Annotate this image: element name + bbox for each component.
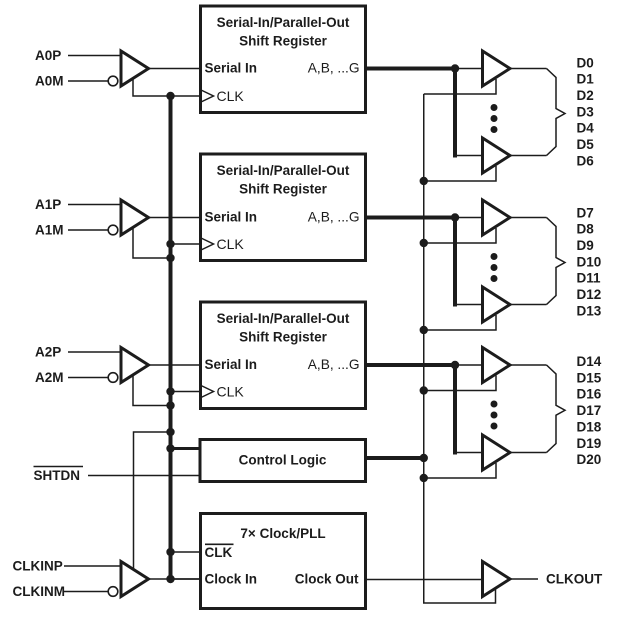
svg-text:A,B, ...G: A,B, ...G — [308, 357, 360, 372]
svg-text:D17: D17 — [577, 403, 602, 418]
svg-text:D15: D15 — [577, 370, 602, 385]
svg-text:7× Clock/PLL: 7× Clock/PLL — [240, 526, 325, 541]
svg-text:D8: D8 — [577, 222, 595, 237]
svg-text:A2P: A2P — [35, 345, 61, 360]
svg-text:D5: D5 — [577, 137, 595, 152]
svg-text:D14: D14 — [577, 354, 602, 369]
svg-text:D7: D7 — [577, 205, 594, 220]
svg-text:Serial-In/Parallel-Out: Serial-In/Parallel-Out — [217, 311, 350, 326]
svg-text:D16: D16 — [577, 387, 602, 402]
svg-text:A2M: A2M — [35, 370, 64, 385]
svg-text:CLK: CLK — [217, 88, 245, 104]
svg-text:D0: D0 — [577, 55, 594, 70]
svg-text:D20: D20 — [577, 452, 602, 467]
svg-text:A1M: A1M — [35, 223, 64, 238]
svg-text:Serial-In/Parallel-Out: Serial-In/Parallel-Out — [217, 163, 350, 178]
svg-text:CLKINP: CLKINP — [13, 559, 63, 574]
svg-text:A0P: A0P — [35, 48, 61, 63]
svg-text:Control Logic: Control Logic — [239, 453, 327, 468]
svg-text:Serial-In/Parallel-Out: Serial-In/Parallel-Out — [217, 15, 350, 30]
svg-text:Serial In: Serial In — [205, 357, 258, 372]
svg-text:A,B, ...G: A,B, ...G — [308, 61, 360, 76]
svg-text:D11: D11 — [577, 271, 602, 286]
svg-text:D9: D9 — [577, 238, 594, 253]
svg-text:Shift Register: Shift Register — [239, 34, 328, 49]
svg-text:D1: D1 — [577, 72, 595, 87]
svg-text:D10: D10 — [577, 254, 602, 269]
svg-text:Shift Register: Shift Register — [239, 182, 328, 197]
svg-text:Clock In: Clock In — [205, 572, 258, 587]
svg-text:A,B, ...G: A,B, ...G — [308, 210, 360, 225]
svg-text:D12: D12 — [577, 287, 602, 302]
svg-text:D13: D13 — [577, 303, 602, 318]
svg-text:D3: D3 — [577, 104, 595, 119]
svg-text:CLK: CLK — [217, 236, 245, 252]
svg-text:CLK: CLK — [217, 384, 245, 400]
svg-text:CLKINM: CLKINM — [13, 584, 66, 599]
svg-text:D2: D2 — [577, 88, 594, 103]
svg-text:Serial In: Serial In — [205, 210, 258, 225]
svg-text:A1P: A1P — [35, 197, 61, 212]
svg-text:Serial In: Serial In — [205, 61, 258, 76]
svg-text:CLK: CLK — [205, 545, 233, 560]
svg-text:CLKOUT: CLKOUT — [546, 572, 603, 587]
svg-text:Clock Out: Clock Out — [295, 572, 359, 587]
svg-text:Shift Register: Shift Register — [239, 330, 328, 345]
svg-text:D19: D19 — [577, 436, 602, 451]
svg-text:SHTDN: SHTDN — [34, 468, 81, 483]
svg-text:D4: D4 — [577, 121, 595, 136]
svg-text:D18: D18 — [577, 419, 602, 434]
svg-text:A0M: A0M — [35, 74, 64, 89]
svg-text:D6: D6 — [577, 153, 595, 168]
